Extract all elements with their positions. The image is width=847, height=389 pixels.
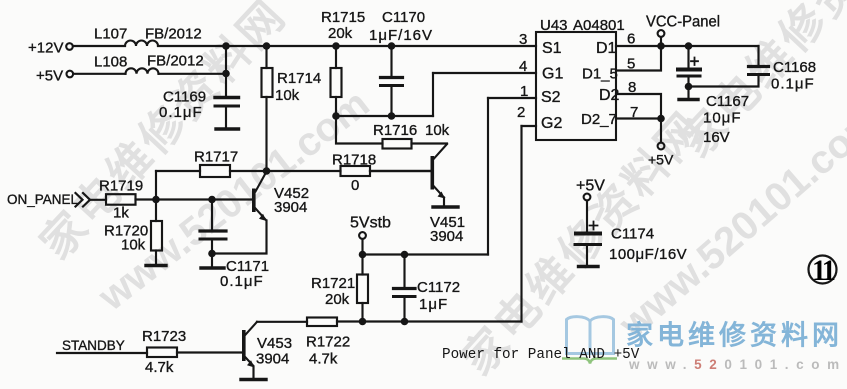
node dot VCC [657, 42, 665, 50]
wire pin4 G1 [433, 72, 536, 74]
wire +5V to L108 [73, 73, 125, 75]
node dot rail 1 [222, 42, 230, 50]
wire +12V to L107 [73, 45, 125, 47]
wire R1721 bottom [361, 303, 363, 322]
wire base rail [136, 198, 253, 200]
node dot C1167 top [685, 42, 693, 50]
ground C1174 [579, 265, 599, 268]
wire stb rail [363, 253, 489, 255]
wire R1717 left vertical [155, 171, 157, 200]
wire R1715 bottom [335, 97, 337, 116]
ground C1167 [679, 98, 698, 101]
svg-text:S2: S2 [541, 89, 561, 106]
svg-text:L107: L107 [94, 26, 127, 43]
resistor R1720 [151, 221, 162, 251]
svg-text:+5V: +5V [36, 68, 63, 85]
svg-text:D2_7: D2_7 [581, 111, 617, 128]
terminal +5V pin7 [658, 143, 665, 150]
svg-text:R1715: R1715 [321, 9, 365, 26]
node dot pin7 [657, 115, 665, 123]
wire G1 vertical [432, 73, 434, 116]
wire pin1 S2 [488, 97, 536, 99]
wire pin2 G2 [522, 125, 537, 127]
wire V453 emitter [252, 367, 254, 378]
logo book icon [567, 317, 614, 354]
page number 11 [809, 254, 837, 287]
node dot L108 [222, 70, 230, 78]
svg-text:V453: V453 [257, 335, 292, 352]
capacitor C1172 [394, 287, 416, 290]
ground R1720 [146, 264, 166, 267]
svg-text:7: 7 [630, 104, 638, 121]
resistor R1719 [106, 194, 136, 205]
svg-text:0.1μF: 0.1μF [220, 273, 264, 290]
wire R1714 bottom [265, 97, 267, 171]
wire R1716 left [336, 116, 383, 144]
node dot rail 4 [388, 42, 396, 50]
wire C1168 top [757, 46, 759, 65]
wire V451 emitter [443, 198, 445, 206]
svg-text:3904: 3904 [274, 199, 307, 216]
emitter V453 [246, 358, 253, 366]
svg-text:4: 4 [519, 58, 527, 75]
svg-text:U43: U43 [540, 17, 568, 34]
svg-text:3904: 3904 [256, 351, 289, 368]
svg-text:ON_PANEL: ON_PANEL [7, 192, 79, 207]
wire pin6 D1 [616, 45, 661, 47]
svg-text:VCC-Panel: VCC-Panel [646, 14, 720, 31]
svg-text:8: 8 [628, 79, 636, 96]
wire pin5 D1_5 [616, 46, 661, 71]
wire C1167 top [687, 46, 689, 68]
wire R1723 right [177, 351, 242, 353]
svg-text:C1168: C1168 [773, 59, 816, 76]
emitter V451 [434, 187, 444, 198]
resistor R1714 [262, 68, 273, 97]
svg-text:R1723: R1723 [142, 328, 186, 345]
node dot C1172 bottom [401, 318, 409, 326]
svg-text:L108: L108 [94, 54, 127, 71]
capacitor C1169 [215, 96, 239, 99]
resistor R1718 [341, 166, 371, 176]
node dot C1172 top [401, 251, 409, 259]
wire R1717 left [156, 170, 200, 172]
svg-text:A04801: A04801 [573, 17, 625, 34]
terminal +12V [66, 43, 73, 50]
wire C1171 top [211, 200, 213, 230]
svg-text:+5V: +5V [576, 178, 605, 195]
capacitor C1167 [678, 68, 700, 72]
node dot C1171 top [208, 196, 216, 204]
svg-text:1μF: 1μF [419, 296, 448, 313]
svg-text:G2: G2 [541, 115, 562, 132]
svg-text:+5V: +5V [648, 152, 674, 168]
wire C1170 bottom [390, 87, 392, 116]
svg-text:R1722: R1722 [306, 334, 350, 351]
wire VCC to rail [660, 37, 662, 46]
node dot R1721 bottom [359, 318, 367, 326]
wire R1717 right [230, 170, 267, 172]
svg-text:C1169: C1169 [163, 89, 206, 106]
svg-text:C1174: C1174 [611, 226, 654, 243]
resistor R1715 [331, 68, 342, 97]
svg-text:10k: 10k [121, 237, 146, 254]
wire R1721 top [361, 255, 363, 275]
svg-text:10k: 10k [275, 87, 300, 104]
transistor V451 [431, 156, 435, 190]
svg-text:20k: 20k [325, 291, 350, 308]
svg-text:G1: G1 [542, 66, 563, 83]
capacitor C1171 [200, 229, 226, 232]
wire S2 vertical [487, 98, 489, 255]
capacitor C1174 plus [590, 222, 598, 230]
svg-text:100μF/16V: 100μF/16V [609, 246, 687, 263]
capacitor C1167 plus [691, 58, 698, 66]
ground C1169 [216, 127, 239, 130]
svg-text:0: 0 [351, 177, 359, 194]
terminal VCC-Panel [658, 30, 665, 37]
svg-text:1μF/16V: 1μF/16V [369, 27, 433, 44]
wire R1716 right [412, 142, 448, 144]
svg-text:6: 6 [627, 31, 635, 48]
capacitor C1170 [381, 76, 403, 79]
svg-text:20k: 20k [328, 25, 353, 42]
svg-text:1: 1 [520, 83, 528, 100]
wire STANDBY [57, 352, 147, 354]
svg-text:16V: 16V [703, 129, 730, 146]
wire C1171 bottom [211, 241, 213, 267]
svg-text:FB/2012: FB/2012 [145, 26, 202, 43]
wire bottom rail [337, 320, 522, 322]
resistor R1717 [200, 165, 230, 177]
wire C1169 to ground [225, 108, 227, 128]
wire R1718 right [370, 170, 431, 172]
capacitor C1174 [576, 232, 600, 236]
resistor R1721 [357, 275, 368, 304]
svg-text:4.7k: 4.7k [145, 359, 174, 376]
node dot C1167 bottom [685, 83, 693, 91]
wire pin8 D2 [616, 94, 661, 119]
svg-text:+12V: +12V [28, 40, 63, 57]
wire pin7 to +5V [660, 119, 662, 143]
svg-text:D1_5: D1_5 [582, 66, 618, 83]
wire 5Vstb down [361, 239, 363, 255]
wire V453 collector [246, 322, 257, 335]
svg-text:R1721: R1721 [311, 275, 355, 292]
wire ON_PANEL [91, 199, 106, 201]
logo green brace [562, 359, 617, 364]
wire V452 emitter [212, 221, 267, 254]
wire R1715 top [335, 46, 337, 68]
svg-text:10μF: 10μF [703, 110, 742, 127]
wire VCC rail right [661, 45, 759, 47]
inductor L107 [125, 41, 158, 46]
wire bottom rail left [257, 321, 307, 323]
ground C1171 [201, 266, 224, 269]
svg-text:Power for Panel AND +5V: Power for Panel AND +5V [442, 347, 640, 363]
wire V451 collector [434, 144, 447, 159]
wire C1168 bottom rail [689, 76, 759, 87]
svg-text:C1170: C1170 [382, 9, 425, 26]
svg-text:3: 3 [519, 31, 527, 48]
svg-text:R1714: R1714 [277, 70, 321, 87]
inductor L108 [126, 68, 159, 74]
resistor R1722 [307, 318, 337, 327]
emitter V452 [256, 209, 266, 220]
svg-text:4.7k: 4.7k [309, 351, 338, 368]
capacitor C1168 [749, 65, 769, 68]
wire C1170 top [390, 46, 392, 76]
wire V451 base [370, 170, 431, 172]
terminal 5Vstb [359, 232, 366, 239]
wire R1714 top [265, 46, 267, 68]
node dot C1171 bottom [208, 250, 216, 258]
ground V451 [433, 205, 458, 208]
svg-text:D1: D1 [596, 40, 617, 57]
svg-text:R1719: R1719 [99, 178, 143, 195]
svg-text:10k: 10k [425, 122, 450, 139]
svg-text:5Vstb: 5Vstb [350, 215, 391, 232]
terminal +5V [67, 71, 74, 78]
svg-text:1k: 1k [113, 205, 129, 222]
svg-text:5: 5 [627, 56, 635, 73]
svg-text:2: 2 [517, 104, 525, 121]
svg-text:C1167: C1167 [706, 93, 749, 110]
node dot R1719 [152, 196, 160, 204]
svg-text:0.1μF: 0.1μF [771, 76, 815, 93]
wire C1174 bottom [586, 247, 588, 266]
wire C1172 top [403, 255, 405, 288]
svg-text:R1718: R1718 [332, 152, 376, 169]
ground V453 [241, 378, 266, 381]
node dot R1715 bottom [332, 112, 340, 120]
wire collector row [267, 170, 341, 172]
wire C1167 bottom [687, 78, 689, 98]
svg-text:C1172: C1172 [417, 279, 460, 296]
svg-text:STANDBY: STANDBY [62, 338, 125, 353]
node ON_PANEL chevron [76, 193, 91, 207]
wire +12V rail [158, 45, 536, 47]
wire V452 collector [256, 172, 267, 192]
svg-text:D2: D2 [599, 87, 620, 104]
transistor V452 [252, 189, 256, 213]
svg-text:S1: S1 [542, 40, 562, 57]
node dot rail 2 [263, 42, 271, 50]
transistor V453 [242, 330, 246, 361]
wire R1720 bottom [155, 251, 157, 265]
wire R1720 top [155, 200, 157, 222]
chip U43 box [536, 32, 616, 140]
wire G2 vertical [520, 126, 522, 322]
svg-text:www.520101.com: www.520101.com [628, 357, 847, 372]
wire node G1 rail [336, 115, 433, 117]
svg-text:11: 11 [812, 254, 835, 287]
svg-text:R1717: R1717 [194, 149, 238, 166]
resistor R1723 [147, 348, 177, 358]
wire L108 to node [159, 73, 227, 75]
node dot rail 3 [332, 42, 340, 50]
wire +5V to C1174 [586, 201, 588, 232]
svg-text:3904: 3904 [430, 228, 463, 245]
svg-text:R1716: R1716 [373, 122, 417, 139]
wire node +12V/+5V vertical [225, 46, 227, 96]
terminal +5V C1174 [584, 194, 591, 201]
wire pin7 D2_7 [616, 117, 661, 119]
resistor R1716 [383, 139, 412, 149]
node dot 5Vstb [359, 251, 367, 259]
svg-text:FB/2012: FB/2012 [147, 53, 204, 70]
svg-text:家电维修资料网: 家电维修资料网 [626, 320, 843, 351]
node dot C1170 bottom [388, 112, 396, 120]
wire C1172 bottom [403, 298, 405, 322]
svg-text:0.1μF: 0.1μF [159, 104, 203, 121]
node dot collector V452 [263, 167, 271, 175]
